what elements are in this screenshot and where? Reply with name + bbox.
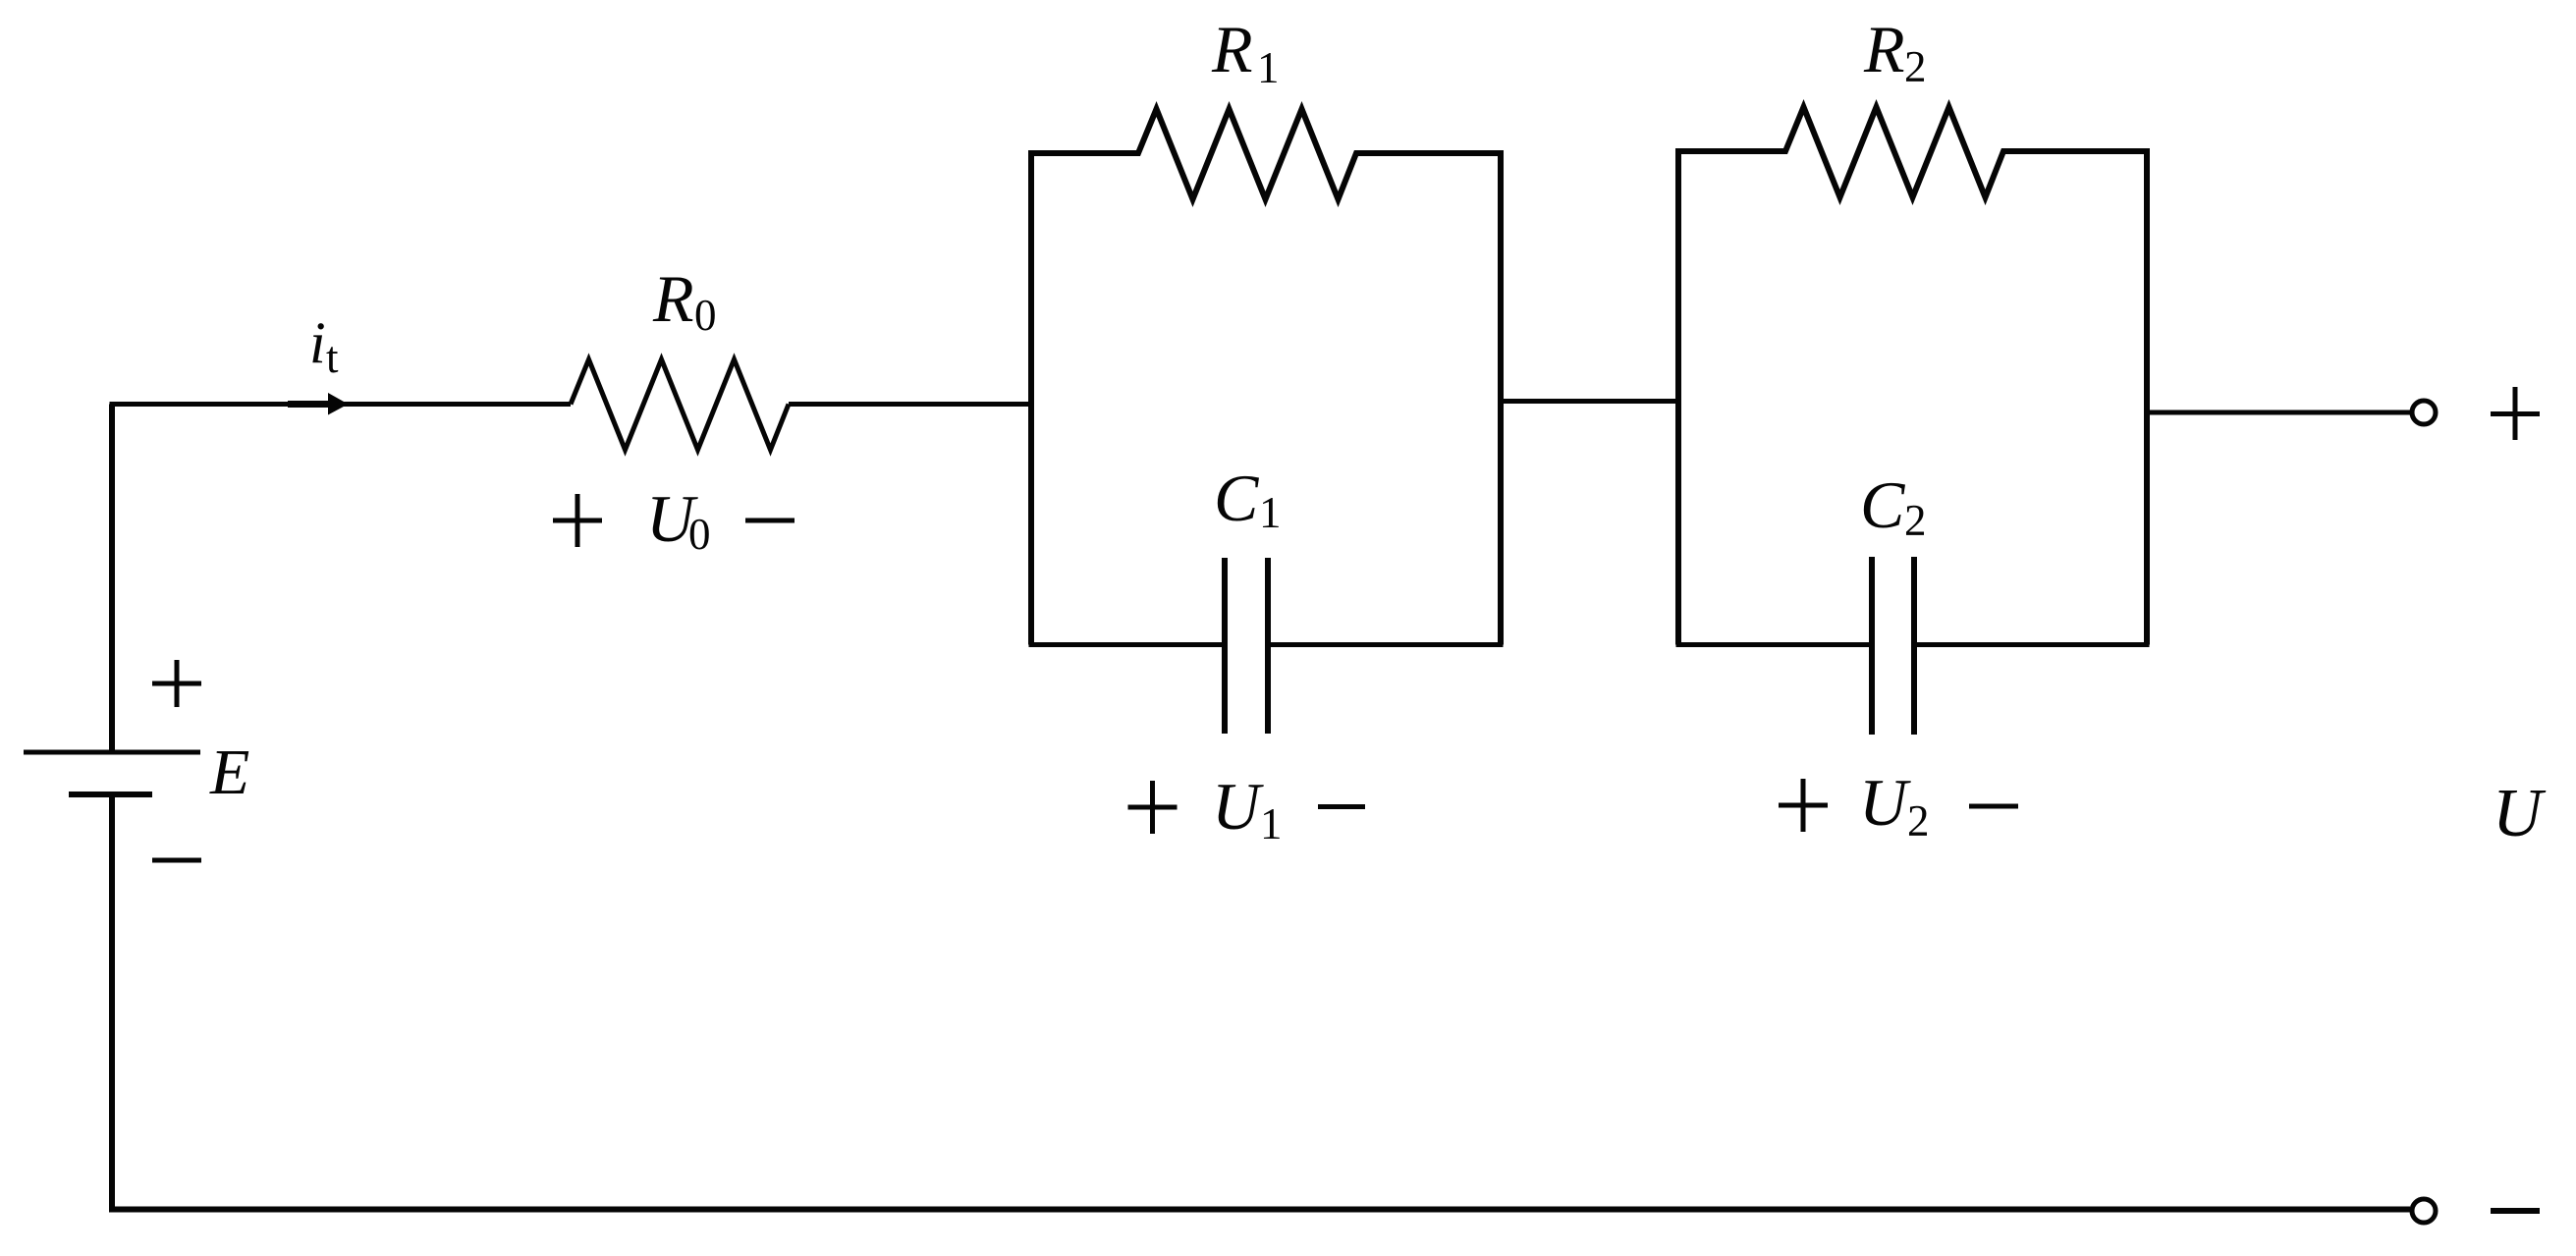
- svg-text:R: R: [1211, 12, 1253, 86]
- wire: node between R1C1 block and R2C2 block: [1501, 399, 1678, 404]
- wire: bottom of R1C1 block, left of capacitor C1: [1029, 642, 1223, 647]
- svg-text:R: R: [652, 261, 694, 336]
- positive output terminal (open circle): [2412, 401, 2436, 424]
- capacitor C2 right plate: [1911, 557, 1917, 735]
- minus polarity of U1: [1318, 804, 1365, 809]
- plus polarity of U2: [1779, 779, 1828, 832]
- resistor R0 zigzag: [571, 359, 789, 450]
- minus polarity mark at output: [2491, 1208, 2540, 1214]
- wire: bottom rail from battery to negative output terminal: [109, 1207, 2410, 1213]
- capacitor C1 right plate: [1265, 558, 1271, 734]
- capacitor C1 left plate: [1222, 558, 1228, 734]
- svg-text:1: 1: [1260, 799, 1283, 848]
- svg-text:2: 2: [1904, 42, 1927, 91]
- battery plus polarity mark: [152, 660, 201, 707]
- wire: bottom of R2C2 block, right of capacitor C2: [1917, 642, 2150, 647]
- svg-text:1: 1: [1259, 488, 1282, 537]
- battery E positive plate (long): [24, 750, 200, 755]
- svg-text:0: 0: [694, 291, 717, 340]
- svg-text:0: 0: [688, 510, 711, 559]
- svg-text:1: 1: [1257, 43, 1280, 92]
- R2C2 parallel block frame with resistor R2 zigzag on top: [1678, 107, 2147, 645]
- wire: battery negative plate down to bottom rail: [109, 794, 115, 1209]
- plus polarity mark at output: [2491, 387, 2540, 440]
- minus polarity of U0: [745, 519, 795, 523]
- wire: R0 to R1C1 block: [789, 402, 1031, 407]
- svg-text:2: 2: [1904, 496, 1927, 545]
- svg-text:U: U: [2493, 776, 2547, 851]
- negative output terminal (open circle): [2412, 1199, 2436, 1223]
- wire: left branch from top node down to battery positive plate: [109, 405, 115, 753]
- battery minus polarity mark: [152, 858, 201, 863]
- wire: top rail from battery node to resistor R0: [110, 402, 572, 407]
- svg-text:U: U: [1859, 765, 1911, 840]
- wire: bottom of R2C2 block, left of capacitor C2: [1676, 642, 1870, 647]
- plus polarity of U1: [1128, 781, 1178, 834]
- current arrow it on top wire: [288, 393, 349, 415]
- svg-text:t: t: [326, 333, 339, 382]
- svg-text:C: C: [1214, 461, 1259, 535]
- svg-text:R: R: [1863, 12, 1905, 86]
- svg-text:C: C: [1860, 467, 1905, 542]
- plus polarity of U0: [553, 494, 602, 547]
- svg-text:U: U: [1212, 769, 1264, 844]
- svg-text:2: 2: [1907, 796, 1930, 846]
- svg-text:i: i: [309, 310, 326, 375]
- R1C1 parallel block frame with resistor R1 zigzag on top: [1031, 109, 1501, 645]
- minus polarity of U2: [1969, 804, 2018, 809]
- svg-text:E: E: [209, 737, 249, 808]
- wire: bottom of R1C1 block, right of capacitor C1: [1271, 642, 1504, 647]
- battery E negative plate (short): [69, 792, 152, 797]
- capacitor C2 left plate: [1869, 557, 1875, 735]
- wire: R2C2 block to positive output terminal: [2147, 410, 2410, 415]
